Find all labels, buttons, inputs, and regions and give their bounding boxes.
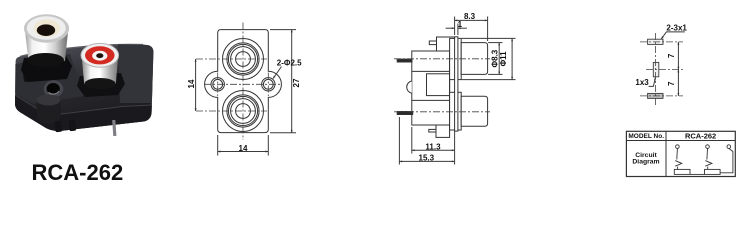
svg-text:7: 7 [667,53,676,58]
svg-text:MODEL No.: MODEL No. [628,133,664,140]
svg-text:2-Φ2.5: 2-Φ2.5 [277,58,302,67]
svg-text:15.3: 15.3 [419,153,435,162]
svg-text:8.3: 8.3 [464,12,476,21]
svg-text:1x3: 1x3 [635,78,649,87]
svg-text:Φ8.3: Φ8.3 [490,49,499,67]
svg-text:Φ11: Φ11 [499,51,508,67]
svg-text:Diagram: Diagram [632,159,659,166]
svg-text:RCA-262: RCA-262 [685,131,716,140]
svg-text:1: 1 [458,20,463,29]
svg-text:14: 14 [239,144,248,153]
svg-text:RCA-262: RCA-262 [32,160,124,185]
svg-text:27: 27 [292,78,301,87]
svg-text:2-3x1: 2-3x1 [666,24,687,33]
svg-text:7: 7 [667,81,676,86]
svg-text:11.3: 11.3 [425,142,441,151]
svg-text:14: 14 [187,79,196,88]
